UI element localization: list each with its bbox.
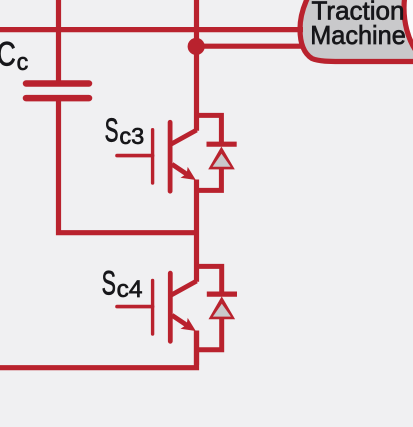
diode D2 triangle	[209, 296, 236, 319]
wire main vertical bus	[194, 0, 199, 131]
machine M1 label "Traction Machine"	[310, 0, 406, 50]
transistor Sc4 gate bar	[151, 281, 154, 335]
diode D1 cathode bar	[207, 142, 237, 147]
machine M1 end-cap ellipse	[404, 0, 413, 68]
wire Sc3 collector stub to diode	[197, 115, 222, 144]
wire D1 anode to emitter rail	[197, 168, 222, 190]
label Cc	[0, 35, 28, 76]
transistor Sc3 body bar	[168, 122, 173, 191]
diode D1 triangle	[208, 147, 235, 170]
svg-text:Machine: Machine	[310, 20, 406, 50]
svg-text:c3: c3	[119, 123, 144, 149]
diode D2 cathode bar	[207, 292, 237, 297]
transistor Sc4 collector diagonal	[170, 281, 197, 296]
wire Sc3 emitter vertical down to Sc4 collector	[194, 180, 199, 282]
wire bottom rail	[0, 331, 197, 368]
capacitor Cc plate 2	[26, 95, 89, 102]
wire Sc4 collector stub to diode	[197, 266, 222, 294]
transistor Sc4 gate lead	[117, 305, 153, 309]
wire left vertical lower and mid rail	[59, 98, 197, 233]
wire D2 anode to emitter rail	[197, 318, 222, 350]
transistor Sc4 emitter arrowhead	[181, 318, 196, 331]
wire left vertical upper (to capacitor)	[56, 0, 61, 83]
wire phase rail to machine	[197, 44, 304, 49]
capacitor Cc plate 1	[26, 80, 89, 87]
junction dot	[188, 38, 205, 55]
transistor Sc3 collector diagonal	[170, 130, 197, 145]
transistor Sc3 gate lead	[117, 154, 153, 158]
wire top DC rail	[0, 27, 303, 32]
svg-text:c: c	[17, 49, 29, 77]
svg-text:c4: c4	[117, 276, 143, 303]
wire Sc4 emitter vertical	[194, 331, 199, 365]
label Sc4	[102, 264, 143, 303]
transistor Sc4 body bar	[168, 273, 173, 341]
svg-text:S: S	[102, 264, 116, 302]
transistor Sc3 emitter diagonal	[172, 164, 188, 175]
transistor Sc3 gate bar	[151, 130, 154, 183]
machine M1 body (Traction Machine)	[300, 0, 413, 62]
label Sc3	[105, 112, 145, 149]
svg-text:S: S	[105, 112, 119, 149]
transistor Sc4 emitter diagonal	[172, 315, 188, 326]
transistor Sc3 emitter arrowhead	[181, 167, 196, 180]
svg-text:C: C	[0, 35, 16, 73]
